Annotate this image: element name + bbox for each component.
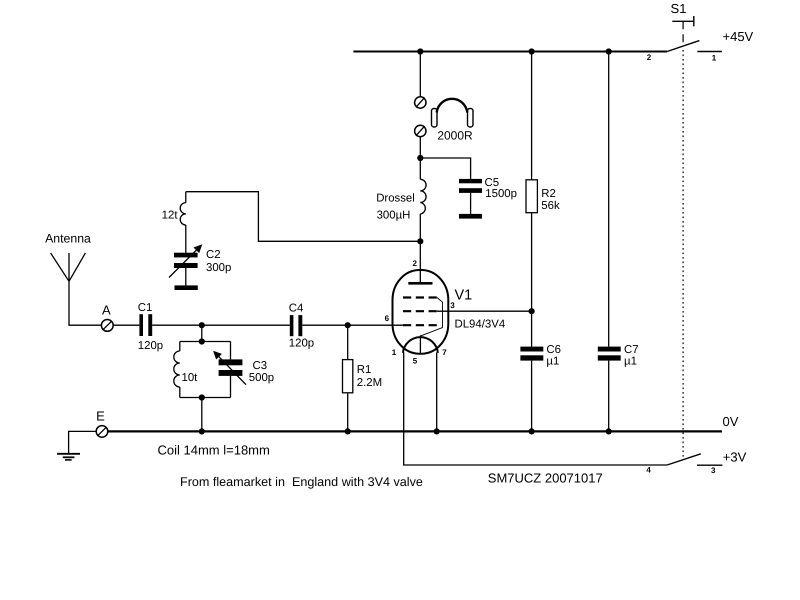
wire R1 bottom [347,393,349,432]
capacitor C3 plate 2 [219,370,243,376]
wire antenna to terminal A [69,281,101,325]
capacitor C5 plate 1 [459,179,482,183]
wire R2 to C6 [531,213,533,347]
wire tank right lower [230,376,232,398]
inductor 12t [180,203,186,225]
wire C5 lower stub [470,193,472,214]
terminal E [96,426,108,438]
tank bottom edge wire [180,397,231,399]
svg-text:12t: 12t [162,210,179,222]
wire jack to C5 node [419,137,421,180]
node junction R1 [345,322,351,328]
svg-text:7: 7 [442,348,447,357]
node junction anode / 12t feedback [417,238,423,244]
capacitor C2 plate 1 [174,253,198,258]
svg-text:DL94/3V4: DL94/3V4 [455,319,506,331]
inductor 12t upper stub [185,192,187,203]
tube V1 grid row 1 [403,296,437,298]
svg-text:0V: 0V [723,414,739,429]
svg-text:R1: R1 [357,364,372,376]
svg-text:10t: 10t [182,372,199,384]
svg-text:6: 6 [385,314,390,323]
svg-text:SM7UCZ 20071017: SM7UCZ 20071017 [488,471,603,486]
wire +45V top rail [353,51,667,53]
svg-text:120p: 120p [289,337,314,349]
switch S1 mechanical link dashed line [682,21,684,47]
svg-text:C2: C2 [206,249,221,261]
wire feedback link 12t to anode node [186,192,420,242]
wire top rail to jack [419,52,421,97]
switch S1 pole b contact 3 [697,464,722,466]
antenna symbol [51,253,69,281]
wire C1 to C4 [152,324,290,326]
node junction C5 branch [417,155,423,161]
capacitor C2 trimmer arrow [169,248,199,278]
wire tank right upper [230,342,232,360]
terminal jack lower [415,125,426,136]
svg-text:4: 4 [646,465,651,474]
svg-text:2: 2 [647,53,652,62]
node junction top rail / C7 column [606,48,612,54]
svg-text:120p: 120p [138,340,163,352]
node junction tank tap [199,322,205,328]
node junction top rail / R2 column [529,48,535,54]
capacitor C7 plate 2 [598,355,621,360]
capacitor C1 plate 1 [139,314,143,336]
tube V1 grid row 3 [403,324,437,326]
node junction 0V R1 [345,428,351,434]
capacitor C5 bottom plate [459,214,482,219]
svg-text:300µH: 300µH [377,210,411,222]
node junction 0V C7 [606,428,612,434]
svg-text:1: 1 [392,348,397,357]
svg-text:300p: 300p [206,262,231,274]
headphone 2000R headband arc [437,99,468,113]
svg-text:V1: V1 [455,288,473,304]
svg-text:S1: S1 [671,1,687,16]
wire drossel to tube anode [419,214,421,283]
svg-text:R2: R2 [541,188,556,200]
node junction 0V C6 [529,428,535,434]
switch S1 pole a blade [667,41,699,52]
tube V1 anode plate [408,282,432,285]
svg-text:C1: C1 [138,302,153,314]
node junction 0V tank [199,428,205,434]
svg-text:56k: 56k [541,200,560,212]
svg-text:Antenna: Antenna [45,232,91,246]
wire 12t to C2 [185,225,187,253]
svg-text:1: 1 [712,53,717,62]
capacitor C4 plate 1 [290,315,294,336]
capacitor C2 plate 2 [174,263,198,268]
svg-text:µ1: µ1 [546,355,559,367]
wire tank bottom to 0V [201,398,203,432]
svg-text:5: 5 [413,357,418,366]
tube V1 internal grid3 tie [421,298,443,336]
node junction tank bottom [199,394,205,400]
wire C2 lower stub [185,268,187,285]
svg-text:+45V: +45V [723,29,754,44]
terminal A [101,320,113,332]
tube V1 filament center line [419,335,421,353]
wire C4 to tube grid pin 6 [302,324,403,326]
svg-text:Drossel: Drossel [376,192,415,204]
resistor R2 body [526,180,537,213]
capacitor C1 plate 2 [148,314,152,336]
wire tube pin 1 to +3V switch [404,352,667,465]
wire C6 to 0V [531,361,533,432]
capacitor C5 plate 2 [459,188,482,193]
wire E to ground [69,431,97,453]
capacitor C7 plate 1 [598,347,621,352]
wire R1 top [347,325,349,359]
wire tap to tank [201,325,203,341]
switch S1 pole a contact 1 [697,51,722,53]
svg-text:+3V: +3V [723,450,747,465]
svg-text:C6: C6 [546,344,561,356]
capacitor C2 bottom plate [175,285,198,290]
inductor 10t lower stub [179,387,181,398]
wire C5 branch [420,158,470,179]
svg-text:3: 3 [711,466,716,475]
wire tube pin 7 to 0V [436,352,438,431]
svg-text:2.2M: 2.2M [357,377,382,389]
svg-text:C4: C4 [289,303,304,315]
inductor Drossel 300uH [420,179,426,214]
switch S1 actuator bar [672,20,694,22]
wire tube pin 3 to R2 [437,310,532,312]
node junction 0V pin7 [434,428,440,434]
terminal jack upper [415,97,426,108]
capacitor C3 plate 1 [219,359,243,365]
switch S1 pole b blade [667,454,701,465]
tube V1 grid row 2 [403,310,437,312]
tube V1 filament dome [403,337,438,353]
svg-text:2: 2 [413,259,418,268]
node junction tank top [199,338,205,344]
svg-text:E: E [96,409,105,424]
svg-text:µ1: µ1 [624,355,637,367]
svg-text:C3: C3 [253,360,268,372]
capacitor C6 plate 2 [520,355,543,360]
inductor 10t upper stub [179,342,181,352]
svg-text:A: A [102,303,111,318]
ground rail 0V [108,430,722,432]
tube V1 envelope [393,270,449,354]
capacitor C3 trimmer arrow [217,354,246,384]
svg-text:C7: C7 [624,344,639,356]
svg-text:From fleamarket in England wi: From fleamarket in England with 3V4 valv… [180,475,423,489]
tank top edge wire [180,341,231,343]
capacitor C4 plate 2 [298,315,302,336]
node junction pin3 / R2 column [529,308,535,314]
wire A to C1 [113,324,139,326]
wire C7 column top [608,52,610,347]
svg-text:500p: 500p [249,372,274,384]
capacitor C6 plate 1 [520,347,543,352]
inductor 10t [174,351,180,387]
svg-text:2000R: 2000R [437,129,473,143]
headphone 2000R earpiece left [432,109,438,128]
wire C7 to 0V [608,361,610,432]
node junction top rail / headphone column [417,48,423,54]
resistor R1 body [343,360,353,393]
svg-text:1500p: 1500p [485,188,517,200]
ground symbol [57,453,80,455]
headphone 2000R earpiece right [468,109,474,128]
wire R2 column top [531,52,533,180]
svg-text:Coil 14mm l=18mm: Coil 14mm l=18mm [158,443,270,458]
